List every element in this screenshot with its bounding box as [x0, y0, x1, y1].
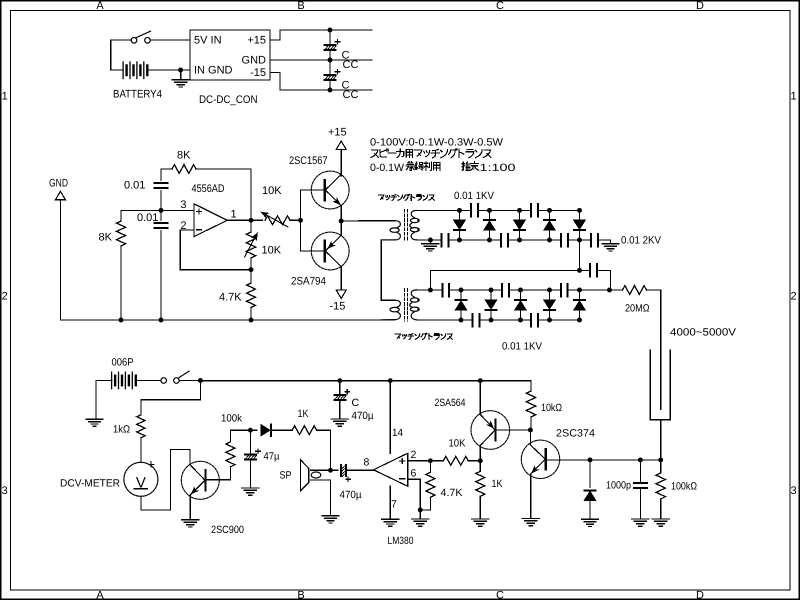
- resistor 10K lm380: [443, 456, 468, 465]
- ground pin6 node: [412, 519, 429, 526]
- wire op-amp output: [227, 219, 262, 221]
- wire main ground bus: [60, 319, 394, 321]
- wire 4.7K bottom jog: [420, 497, 430, 510]
- wire Q3 base: [206, 467, 231, 480]
- speaker SP: [301, 460, 321, 491]
- wire 0.01 C4 bottom lead: [160, 231, 162, 321]
- junction ladder2 top node 5: [577, 288, 582, 293]
- junction ladder1 top node 2: [487, 208, 492, 213]
- junction bus 0.01: [159, 318, 164, 323]
- svg-text:2SC374: 2SC374: [556, 428, 595, 440]
- junction ladder2 bottom node 5: [577, 318, 582, 323]
- junction ladder1 bottom node 5: [577, 238, 582, 243]
- switch SW2: [161, 371, 189, 383]
- svg-text:2: 2: [2, 291, 8, 303]
- HV electrode tube: [650, 350, 670, 420]
- svg-text:BATTERY4: BATTERY4: [113, 89, 162, 101]
- resistor 8K input: [116, 221, 125, 246]
- wire ladder1 D2 lead2: [489, 231, 491, 241]
- svg-text:0.01 1KV: 0.01 1KV: [454, 190, 494, 202]
- resistor 1K detector: [292, 426, 316, 435]
- wire ladder2 D1 leads: [460, 290, 462, 300]
- wire Q1 emitter to node: [340, 206, 342, 221]
- potentiometer 10K series arrow: [262, 213, 288, 228]
- transformer T2 primary winding: [381, 300, 400, 320]
- ground 1K bias: [472, 519, 489, 526]
- wire cap C2 bottom lead: [329, 81, 331, 90]
- wire feedback top left: [161, 168, 172, 170]
- wire 1K to ground: [479, 496, 481, 519]
- wire link to ladder2: [597, 270, 611, 290]
- wire ladder2 D2 leads: [490, 290, 492, 300]
- transformer T1 secondary winding: [410, 210, 420, 240]
- wire 1k to meter: [140, 438, 142, 463]
- diode ladder1 D4: [544, 220, 555, 230]
- resistor 100k: [226, 442, 235, 467]
- svg-text:1:100: 1:100: [480, 162, 516, 174]
- svg-text:CC: CC: [343, 59, 359, 71]
- wire 47u top lead: [249, 430, 251, 453]
- wire 2KV cap to ground: [598, 240, 611, 244]
- resistor 1K bias: [476, 471, 485, 496]
- ground Q3 emitter: [182, 520, 199, 527]
- capacitor 470u coupling: [340, 464, 350, 482]
- wire ladder1 D1 lead2: [459, 231, 461, 241]
- svg-text:6: 6: [411, 468, 417, 480]
- capacitor C 470u: [333, 390, 349, 401]
- svg-text:GND: GND: [242, 55, 267, 67]
- junction ladder2 top node 3: [518, 288, 523, 293]
- svg-text:D: D: [696, 590, 704, 600]
- wire link vertical left: [429, 270, 431, 290]
- svg-text:3: 3: [2, 485, 8, 497]
- transformer T1 primary winding: [381, 221, 400, 240]
- wire ladder2 D3 leads: [520, 290, 522, 300]
- ground 1000p: [632, 519, 649, 526]
- meter M1 DCV-METER: [124, 462, 158, 496]
- diode ladder2 D3: [515, 300, 526, 310]
- diode ladder2 D1: [455, 300, 466, 310]
- svg-text:3: 3: [180, 199, 186, 211]
- wire 0.01 C3 top lead: [160, 169, 162, 181]
- wire Q2 collector to -15: [340, 267, 342, 290]
- svg-text:470µ: 470µ: [340, 489, 362, 501]
- ground LM380 pin7: [382, 519, 399, 526]
- capacitor ladder2 bottom C b: [531, 314, 538, 327]
- ground 006P: [86, 419, 103, 426]
- transformer T1 core: [404, 210, 407, 242]
- wire Q1 base: [301, 189, 325, 191]
- wire C470u top lead: [339, 381, 341, 394]
- capacitor 0.01 2KV: [591, 234, 598, 247]
- wire ladder1 D5 lead2: [579, 231, 581, 241]
- wire C470u bottom lead: [339, 401, 341, 419]
- junction battery ground node: [178, 68, 183, 73]
- resistor 1kohm: [137, 415, 145, 438]
- svg-text:4556AD: 4556AD: [192, 183, 225, 195]
- svg-text:4.7K: 4.7K: [219, 292, 242, 304]
- wire inverting input: [180, 230, 251, 270]
- wire 100k top lead: [229, 430, 231, 442]
- svg-text:0.01: 0.01: [137, 212, 158, 224]
- capacitor ladder1 bottom C a: [442, 234, 449, 247]
- svg-text:GND: GND: [49, 178, 68, 190]
- wire HV tube to divider: [660, 420, 662, 460]
- junction 47u node: [248, 428, 253, 433]
- diode ladder1 D2: [484, 220, 495, 230]
- diode ladder2 D2: [485, 300, 496, 310]
- junction Q4 base node: [528, 428, 533, 433]
- junction rail C470u: [337, 378, 342, 383]
- wire ladder2 bottom row 2: [538, 319, 580, 321]
- diode ladder1 D3: [514, 220, 525, 230]
- svg-text:2: 2: [411, 449, 417, 461]
- junction Q4 emitter node: [478, 458, 483, 463]
- wire 47u bottom lead: [249, 461, 251, 489]
- capacitor ladder2 bottom C a: [473, 314, 480, 327]
- wire battery to switch SW1: [111, 39, 132, 41]
- ground 0.01 2KV: [602, 244, 619, 251]
- junction ladder1 top node 1: [457, 208, 462, 213]
- capacitor ladder1 bottom C b: [501, 234, 508, 247]
- junction +15 rail cap: [328, 28, 333, 33]
- wire SP top terminal: [311, 469, 338, 471]
- wire D7 to ground: [589, 500, 591, 519]
- wire battery left vertical: [110, 40, 112, 70]
- diode ladder1 D5: [574, 220, 585, 230]
- label matching-transformer T1: [379, 194, 435, 200]
- wire ladder1 bottom row 3: [568, 239, 591, 241]
- wire cap C1 top lead: [329, 30, 331, 44]
- wire +15 rail: [270, 30, 372, 40]
- wire ladder1 D4 lead2: [549, 231, 551, 241]
- resistor 20Mohm: [623, 286, 647, 295]
- note line2 speaker-matching-transformer text: [371, 149, 491, 158]
- transistor Q4 2SA564: [471, 411, 510, 450]
- switch SW1: [131, 31, 150, 43]
- svg-text:CC: CC: [343, 89, 359, 101]
- svg-text:1K: 1K: [298, 408, 309, 420]
- transformer T2 core: [404, 289, 407, 321]
- GND net arrow symbol: [55, 191, 65, 199]
- wire pin6 gnd stem: [419, 510, 421, 519]
- ground D7: [582, 519, 599, 526]
- capacitor 47u: [244, 449, 260, 460]
- capacitor 0.01 C3: [155, 183, 168, 188]
- junction feedback node: [249, 267, 254, 272]
- diode ladder2 D5: [574, 300, 585, 310]
- svg-text:SP: SP: [280, 469, 292, 481]
- wire base node vertical: [300, 190, 302, 251]
- wire Q5 base row: [546, 459, 661, 461]
- wire emitter node to T1 primary: [341, 220, 395, 222]
- wire SW2 to supply rail: [179, 380, 200, 382]
- wire T2 sec top to ladder: [417, 289, 443, 291]
- svg-text:100k: 100k: [221, 412, 243, 424]
- svg-text:1: 1: [2, 91, 8, 103]
- wire pot to base node: [290, 219, 301, 221]
- wire T2 sec bottom to ladder: [417, 319, 473, 321]
- wire 10K VR bottom lead: [250, 258, 252, 270]
- op-amp U1 4556AD triangle: [194, 204, 227, 237]
- wire switch to DC-DC 5V IN pin: [150, 39, 190, 41]
- wire ladder1 D4 leads: [549, 210, 551, 220]
- transistor Q1 2SC1567: [311, 171, 349, 209]
- svg-text:B: B: [297, 0, 304, 12]
- potentiometer 10K shunt: [246, 232, 255, 258]
- wire ladder2 D4 leads: [549, 290, 551, 300]
- resistor 4.7K lm380: [426, 472, 435, 497]
- wire ladder2 D3 lead2: [520, 311, 522, 321]
- wire rail to 1k: [141, 381, 201, 415]
- svg-text:2SA794: 2SA794: [291, 276, 326, 288]
- note line3 suitei kanji: [462, 162, 479, 171]
- wire pin14 vertical: [389, 381, 391, 454]
- wire battery plus to IN GND pin: [148, 69, 190, 71]
- wire 100kohm to ground: [660, 499, 662, 519]
- resistor 4.7K: [247, 283, 256, 307]
- wire pin6 feedback: [408, 479, 420, 510]
- battery 006P: [112, 372, 136, 389]
- junction rail pin14: [388, 378, 393, 383]
- junction pin6 gnd node: [418, 507, 423, 512]
- wire 4.7K top lead: [429, 461, 431, 473]
- wire 10K VR top lead: [250, 220, 252, 232]
- wire ladder2 D1 lead2: [460, 311, 462, 321]
- svg-text:10kΩ: 10kΩ: [541, 402, 562, 414]
- wire ladder1 D2 leads: [489, 210, 491, 220]
- wire T1 sec bottom to ladder: [417, 239, 442, 241]
- wire Q4 collector to node: [479, 446, 481, 461]
- svg-text:47µ: 47µ: [264, 451, 280, 463]
- wire ladder2 D2 lead2: [490, 311, 492, 321]
- svg-text:5V IN: 5V IN: [194, 35, 222, 47]
- wire link row: [430, 269, 590, 271]
- wire cap C2 top lead: [329, 60, 331, 74]
- junction emitter node: [339, 219, 344, 224]
- potentiometer 10K shunt arrow: [245, 234, 258, 258]
- wire 006P to switch SW2: [137, 380, 161, 382]
- ground 100kohm: [652, 519, 669, 526]
- svg-text:10K: 10K: [449, 438, 466, 450]
- diode clamp D7: [584, 490, 595, 500]
- battery BATTERY4: [123, 62, 147, 79]
- capacitor 1000p: [634, 483, 647, 488]
- wire 0.01 C3 bottom lead: [160, 191, 162, 211]
- junction ladder1 top node 3: [517, 208, 522, 213]
- wire Q2 emitter to node: [340, 221, 342, 235]
- svg-text:2SC900: 2SC900: [211, 524, 244, 536]
- svg-text:A: A: [96, 590, 104, 600]
- capacitor ladder2 top C a: [442, 284, 449, 297]
- junction pin2 node: [428, 458, 433, 463]
- svg-text:4000~5000V: 4000~5000V: [670, 326, 736, 338]
- junction rail Q4 emitter: [478, 378, 483, 383]
- wire T1 primary bottom to T2: [380, 240, 382, 300]
- wire pin7 vertical: [389, 486, 391, 519]
- wire Q2 base: [301, 250, 325, 252]
- power symbol -15: [336, 290, 346, 299]
- wire T1 sec top to ladder: [417, 209, 472, 211]
- svg-text:10K: 10K: [262, 185, 282, 197]
- svg-text:C: C: [496, 0, 504, 12]
- svg-text:10K: 10K: [262, 245, 282, 257]
- wire ground stem: [180, 70, 182, 80]
- svg-text:LM380: LM380: [388, 535, 414, 547]
- svg-text:8K: 8K: [177, 150, 191, 162]
- wire GND vertical to bus: [59, 200, 61, 320]
- junction ladder1 top node 5: [577, 208, 582, 213]
- transformer T2 secondary winding: [410, 290, 420, 320]
- wire pin2 to 10K: [408, 460, 444, 462]
- junction ladder1 bottom node 4: [547, 238, 552, 243]
- junction row 100k: [658, 457, 663, 462]
- svg-text:20MΩ: 20MΩ: [625, 303, 650, 315]
- junction row diode: [588, 457, 593, 462]
- svg-text:D: D: [696, 0, 704, 12]
- diode ladder1 D1: [454, 220, 465, 230]
- junction GND rail cap: [328, 58, 333, 63]
- svg-text:1: 1: [790, 91, 796, 103]
- ground SP: [322, 516, 339, 523]
- junction SP node: [328, 468, 333, 473]
- junction ladder1 bottom left: [428, 238, 433, 243]
- wire ladder2 top row 2: [509, 289, 561, 291]
- op-amp U2 plus sign: [400, 459, 405, 464]
- op-amp U1 plus sign: [197, 209, 202, 214]
- svg-text:C: C: [352, 397, 360, 409]
- wire 4.7K bottom lead: [250, 308, 252, 321]
- wire SP bottom terminal: [311, 480, 331, 516]
- svg-text:+15: +15: [247, 35, 266, 47]
- junction base node: [298, 218, 303, 223]
- ground Q5 emitter: [522, 519, 539, 526]
- junction ladder2 top left: [428, 288, 433, 293]
- wire 8K bottom lead: [120, 246, 122, 320]
- svg-text:IN GND: IN GND: [194, 65, 233, 77]
- junction output node: [249, 218, 254, 223]
- wire ladder2 D4 lead2: [549, 311, 551, 321]
- junction ladder1 top node 4: [547, 208, 552, 213]
- wire ladder2 top row 3: [568, 289, 623, 291]
- op-amp U2 minus sign: [400, 478, 405, 480]
- svg-text:8K: 8K: [99, 232, 113, 244]
- wire ladder2 D5 leads: [579, 290, 581, 300]
- svg-text:0.01 1KV: 0.01 1KV: [502, 341, 542, 353]
- wire GND rail: [270, 59, 372, 61]
- wire 1K to SP node: [317, 430, 331, 470]
- potentiometer 10K series: [265, 216, 290, 225]
- junction ladder2 bottom node 4: [547, 318, 552, 323]
- wire -15 rail: [270, 73, 372, 91]
- ground 47u: [242, 488, 259, 495]
- wire supply rail: [200, 381, 531, 391]
- wire 470u to LM380 out: [347, 469, 374, 471]
- capacitor ladder1 bottom C c: [561, 234, 568, 247]
- junction supply rail left: [198, 378, 203, 383]
- svg-text:7: 7: [391, 499, 397, 511]
- svg-text:-15: -15: [250, 67, 266, 79]
- wire ladder1 bottom row 2: [508, 239, 561, 241]
- DC-DC converter U-DCDC box: [190, 30, 270, 80]
- svg-text:14: 14: [392, 427, 403, 439]
- svg-text:2: 2: [790, 291, 796, 303]
- wire ladder1 bottom row 1: [448, 239, 501, 241]
- wire ladder1 D5 leads: [579, 210, 581, 220]
- ground at battery: [172, 80, 189, 87]
- capacitor C2 (C/CC): [324, 70, 340, 81]
- wire ladder1 D3 leads: [519, 210, 521, 220]
- wire ladder2 D5 lead2: [579, 311, 581, 321]
- svg-text:0-100V:0-0.1W-0.3W-0.5W: 0-100V:0-0.1W-0.3W-0.5W: [370, 137, 503, 149]
- svg-text:0.01: 0.01: [124, 180, 145, 192]
- wire Q4 emitter vertical: [479, 381, 481, 415]
- svg-text:1K: 1K: [492, 478, 503, 490]
- svg-text:0-0.1W: 0-0.1W: [370, 162, 404, 174]
- junction ladder2 top node 2: [489, 288, 494, 293]
- wire ladder2 top row 1: [449, 289, 502, 291]
- note line3 winding-use kanji: [406, 162, 440, 171]
- svg-text:DC-DC_CON: DC-DC_CON: [199, 94, 258, 106]
- power symbol +15: [336, 141, 346, 150]
- svg-text:4.7K: 4.7K: [441, 487, 463, 499]
- svg-text:1: 1: [231, 209, 237, 221]
- svg-text:0.01 2KV: 0.01 2KV: [621, 235, 661, 247]
- junction ladder1 bottom node 3: [517, 238, 522, 243]
- junction ladder2 top node 1: [459, 288, 464, 293]
- wire Q4 base to node: [496, 429, 531, 431]
- wire 4.7K top lead: [250, 270, 252, 283]
- resistor 8K feedback: [172, 165, 196, 174]
- transistor Q2 2SA794: [311, 232, 349, 270]
- ground ladder1 left: [422, 244, 439, 251]
- junction ladder1 bottom node 1: [457, 238, 462, 243]
- wire 8K top lead: [120, 210, 122, 221]
- wire 1000p to ground: [639, 488, 641, 519]
- junction ladder2 bottom node 1: [459, 318, 464, 323]
- svg-text:C: C: [496, 590, 504, 600]
- junction row 1000p: [638, 457, 643, 462]
- junction ladder2 bottom node 3: [518, 318, 523, 323]
- wire ladder1 D1 leads: [459, 210, 461, 220]
- capacitor ladder1 top C b: [531, 204, 538, 217]
- ground C470u: [331, 419, 348, 426]
- wire 20M to HV electrode: [647, 290, 661, 409]
- wire 10k to base node: [530, 417, 532, 430]
- capacitor ladder2 top C c: [561, 284, 568, 297]
- svg-text:+15: +15: [328, 127, 347, 139]
- svg-text:100kΩ: 100kΩ: [671, 480, 697, 492]
- wire D6 to 1K: [271, 429, 292, 431]
- junction ladder2 top right: [607, 288, 612, 293]
- junction node pin3: [159, 208, 164, 213]
- svg-text:470µ: 470µ: [352, 410, 374, 422]
- diode ladder2 D4: [544, 300, 555, 310]
- junction bus 8K: [119, 318, 124, 323]
- capacitor ladder2 top C b: [502, 284, 509, 297]
- wire ladder1 top row right: [538, 209, 580, 211]
- svg-text:-15: -15: [330, 301, 346, 313]
- resistor 100kohm: [656, 473, 665, 499]
- wire battery minus lead: [111, 69, 123, 71]
- svg-text:3: 3: [790, 485, 796, 497]
- transistor Q5 2SC374: [521, 440, 559, 478]
- wire 006P left ground drop: [95, 381, 97, 420]
- wire T2 primary top lead: [381, 299, 395, 301]
- wire ladder1 gnd stem: [429, 240, 431, 244]
- op-amp U2 LM380 triangle: [374, 453, 408, 486]
- wire 10K to Q4 node: [468, 460, 480, 462]
